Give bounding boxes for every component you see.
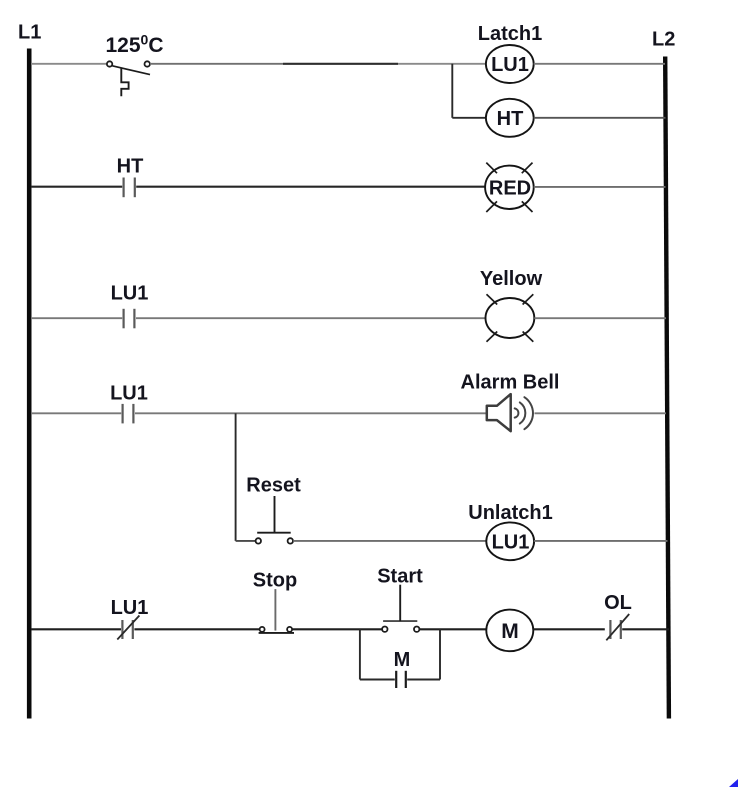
temperature switch 125C [105, 32, 163, 97]
wire parallel branch bottom right [407, 679, 440, 681]
svg-text:L1: L1 [18, 22, 41, 44]
svg-text:OL: OL [604, 592, 632, 614]
coil LU1 (Latch1) [478, 23, 542, 83]
wire parallel branch bottom left [360, 679, 395, 681]
node branch junction right of start [439, 629, 441, 679]
wire rung3 left [31, 317, 122, 319]
wire rung6 left [31, 628, 121, 630]
contact M (NO) holding [394, 649, 411, 688]
pushbutton Stop (NC) [253, 569, 297, 633]
wire rung6 stop to start [292, 628, 382, 630]
contact LU1 (NC) rung6 [111, 597, 149, 640]
pilot light Yellow [480, 268, 543, 342]
contact LU1 (NO) rung3 [111, 283, 149, 329]
decorative corner mark [729, 779, 738, 787]
svg-text:Yellow: Yellow [480, 268, 543, 290]
pushbutton Reset (NO) [246, 475, 301, 544]
wire rung4 left [31, 412, 121, 414]
node branch junction left of start [359, 629, 361, 679]
svg-text:M: M [501, 620, 519, 643]
wire rung1 mid [283, 63, 398, 65]
svg-text:Stop: Stop [253, 569, 297, 591]
svg-text:Unlatch1: Unlatch1 [468, 502, 552, 524]
power rail L1 [18, 22, 41, 719]
pilot light RED [485, 163, 534, 212]
wire rung1 left [31, 63, 107, 65]
pushbutton Start (NO) [377, 566, 423, 632]
svg-text:Latch1: Latch1 [478, 23, 542, 45]
node branch junction rung4 [235, 413, 237, 541]
svg-text:Alarm Bell: Alarm Bell [461, 371, 560, 393]
wire rung3 middle [136, 317, 486, 319]
svg-text:LU1: LU1 [492, 532, 530, 554]
svg-text:LU1: LU1 [491, 54, 529, 76]
power rail L2 [652, 29, 675, 719]
svg-text:LU1: LU1 [111, 597, 149, 619]
wire rung6 to stop [134, 628, 259, 630]
svg-text:HT: HT [117, 156, 144, 178]
wire rung4 middle [135, 412, 487, 414]
coil HT [486, 99, 534, 137]
wire rung1 to coil [398, 63, 486, 65]
coil LU1 (Unlatch1) [468, 502, 552, 560]
svg-text:L2: L2 [652, 29, 675, 51]
node branch junction rung1 [451, 64, 453, 118]
contact HT (NO) [117, 156, 144, 198]
wire rung5 to reset [236, 540, 256, 542]
coil M (motor starter) [486, 610, 533, 652]
wire rung5 right [534, 540, 667, 542]
contact LU1 (NO) rung4 [110, 382, 148, 423]
wire rung6 right [622, 628, 669, 630]
wire rung3 right [534, 317, 666, 319]
svg-text:LU1: LU1 [110, 382, 148, 404]
wire rung6 M coil to OL [533, 628, 605, 630]
svg-text:M: M [394, 649, 411, 671]
wire coil HT to L2 [534, 117, 666, 119]
svg-text:LU1: LU1 [111, 283, 149, 305]
svg-text:HT: HT [497, 108, 524, 130]
wire rung1 right of switch [150, 63, 283, 65]
wire rung2 right [534, 186, 666, 188]
wire coil LU1 to L2 [534, 63, 665, 65]
wire rung2 middle [136, 186, 485, 188]
wire branch to HT coil [452, 117, 486, 119]
svg-text:Reset: Reset [246, 475, 301, 497]
svg-text:RED: RED [489, 178, 531, 200]
svg-text:Start: Start [377, 566, 423, 588]
alarm bell (horn) [461, 371, 560, 431]
wire rung6 start to M coil [419, 628, 486, 630]
svg-text:1250C: 1250C [105, 32, 163, 58]
wire rung4 right [535, 412, 667, 414]
contact OL (NC overload) [604, 592, 632, 640]
wire rung2 left [31, 186, 122, 188]
wire rung5 middle [293, 540, 486, 542]
